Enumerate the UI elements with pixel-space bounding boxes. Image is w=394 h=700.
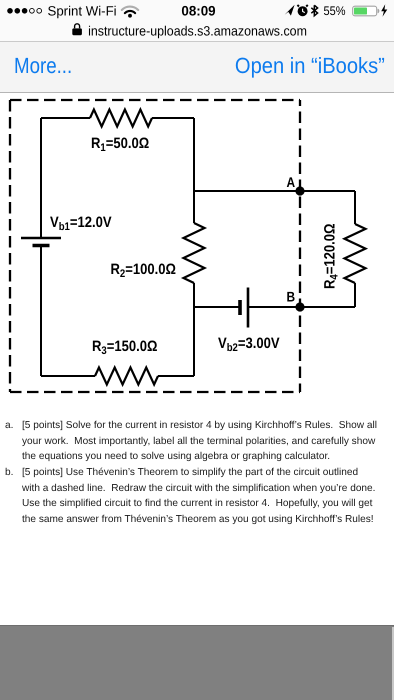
svg-text:instructure-uploads.s3.amazona: instructure-uploads.s3.amazonaws.com: [88, 24, 307, 39]
wire: middle vertical lower: [193, 283, 195, 376]
svg-text:B: B: [287, 289, 296, 305]
signal dot 1: [7, 8, 13, 14]
lock icon: [72, 24, 82, 35]
node A junction dot: [295, 186, 304, 195]
top chrome: status + url area: [0, 0, 394, 41]
battery Vb1 long plate: [21, 237, 61, 240]
svg-text:Sprint Wi-Fi: Sprint Wi-Fi: [48, 3, 117, 18]
battery body: [353, 6, 377, 16]
wifi icon: [122, 7, 138, 14]
wire: bottom right horizontal: [158, 375, 194, 377]
wire: top right horizontal: [152, 117, 194, 119]
wire: left vertical (battery branch): [40, 118, 42, 237]
svg-text:R3=150.0Ω: R3=150.0Ω: [92, 338, 158, 357]
wire: node A horizontal: [194, 190, 355, 192]
signal dot 3: [22, 8, 28, 14]
dashed outline box: left edge: [9, 100, 11, 392]
wire: top left horizontal: [41, 117, 90, 119]
gray page background below document: [0, 625, 394, 700]
svg-text:Vb1=12.0V: Vb1=12.0V: [50, 214, 112, 233]
signal dot 4 (empty): [30, 8, 35, 13]
resistor R1: [90, 110, 152, 127]
dashed outline box: top edge: [10, 99, 300, 101]
resistor R4: [345, 224, 366, 283]
svg-text:55%: 55%: [323, 4, 345, 18]
svg-text:R1=50.0Ω: R1=50.0Ω: [91, 135, 149, 154]
hairline under url area: [0, 41, 394, 42]
signal dot 2: [14, 8, 20, 14]
problem text: [5, 418, 393, 527]
More / iBooks bar: [0, 42, 394, 92]
resistor R3: [95, 368, 158, 385]
svg-text:R2=100.0Ω: R2=100.0Ω: [111, 261, 177, 280]
wire: bottom left horizontal: [41, 375, 95, 377]
wire: node B horizontal right: [249, 306, 355, 308]
circuit schematic: [0, 95, 394, 405]
wire: R4 branch bottom: [354, 283, 356, 307]
charging bolt: [381, 4, 387, 17]
url row: [0, 20, 394, 41]
status bar left: signal dots: [0, 0, 394, 20]
alarm clock: [297, 5, 307, 16]
svg-text:R4=120.0Ω: R4=120.0Ω: [322, 223, 341, 289]
resistor R2: [184, 223, 205, 283]
node B junction dot: [295, 302, 304, 311]
wire: node B horizontal left: [194, 306, 239, 308]
wire: middle vertical upper: [193, 118, 195, 223]
wire: R4 branch top: [354, 191, 356, 224]
battery Vb2 short plate: [238, 300, 242, 315]
battery Vb2 long plate: [247, 288, 250, 328]
dashed outline box: right edge: [299, 100, 301, 392]
wire: left vertical below battery: [40, 247, 42, 376]
dashed outline box: bottom edge: [10, 391, 300, 393]
bluetooth: [311, 5, 317, 16]
location arrow: [285, 5, 295, 16]
svg-text:Vb2=3.00V: Vb2=3.00V: [218, 335, 280, 354]
signal dot 5 (empty): [37, 8, 42, 13]
svg-text:A: A: [287, 174, 296, 190]
svg-text:08:09: 08:09: [181, 3, 216, 18]
battery Vb1 short plate: [33, 244, 50, 248]
